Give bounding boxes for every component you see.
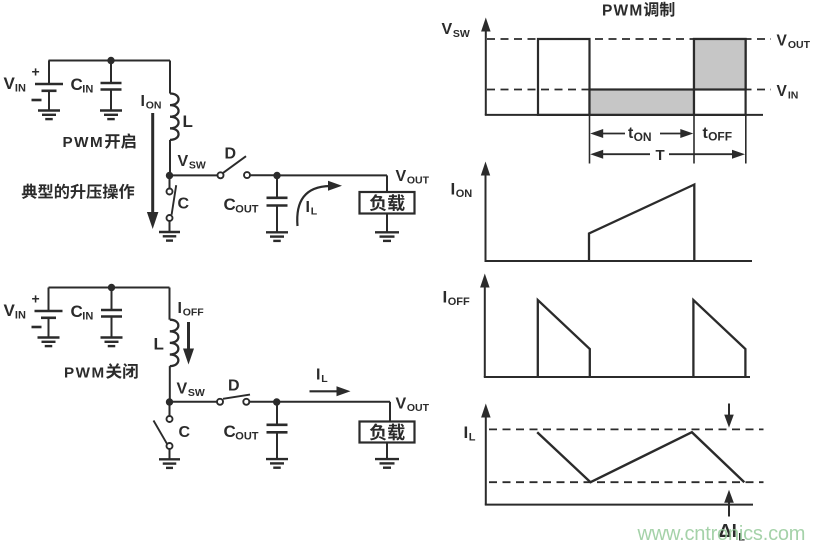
axis y VSW chart [485, 30, 487, 115]
wire VSW to switch D circuit 2 [170, 401, 218, 403]
ground load circuit 1 [375, 231, 399, 233]
load box circuit 1 [360, 192, 415, 214]
switch C circuit 1 [169, 177, 171, 189]
svg-text:www.cntronics.com: www.cntronics.com [637, 523, 806, 545]
svg-text:SW: SW [188, 387, 205, 399]
node Cout circuit 2 [273, 398, 280, 405]
label - minus sign [32, 99, 42, 102]
svg-text:PWM: PWM [63, 134, 105, 151]
switch D circuit 2 [217, 399, 223, 405]
svg-text:V: V [442, 21, 453, 38]
ground switch C circuit 2 [159, 458, 180, 460]
wire Vsw drop circuit 1 [169, 140, 171, 176]
node junction Cin top circuit 2 [108, 284, 115, 291]
axis x IL chart [485, 504, 753, 506]
ground COUT circuit 2 [266, 458, 288, 460]
node junction Cin top circuit 1 [107, 57, 114, 64]
svg-text:IN: IN [82, 311, 93, 323]
svg-text:PWM: PWM [602, 2, 643, 19]
svg-text:C: C [178, 196, 190, 213]
svg-text:OUT: OUT [407, 402, 430, 414]
capacitor CIN circuit 2 [111, 288, 113, 311]
waveform IOFF pulse 2 [693, 300, 745, 377]
wire D to Cout node circuit 2 [249, 401, 276, 403]
label load text circuit 1 [370, 194, 386, 211]
svg-text:L: L [311, 206, 318, 218]
svg-text:V: V [396, 168, 407, 185]
axis y IOFF chart [484, 286, 486, 377]
svg-text:I: I [451, 179, 456, 198]
ground CIN circuit 2 [101, 336, 123, 338]
inductor L2 [170, 320, 179, 366]
svg-text:ON: ON [146, 100, 162, 112]
arrow delta top [728, 404, 730, 417]
capacitor COUT circuit 2 [276, 402, 278, 425]
svg-text:L: L [469, 431, 476, 443]
svg-text:L: L [154, 335, 164, 354]
pulse 2 outline rect [694, 39, 746, 115]
svg-text:L: L [183, 112, 193, 131]
svg-text:ON: ON [634, 130, 652, 144]
dashed line VIN level [487, 89, 771, 91]
arrow ION current [151, 113, 154, 213]
delimiter line pulse1 end [589, 115, 591, 164]
waveform IL triangle [537, 432, 744, 482]
svg-text:OFF: OFF [183, 307, 205, 319]
axis x IOFF chart [484, 376, 750, 378]
node Cout circuit 1 [273, 172, 280, 179]
arrow ton span [590, 129, 603, 138]
svg-text:I: I [316, 367, 320, 384]
svg-text:OUT: OUT [407, 175, 430, 187]
label typical boost operation heading [22, 184, 37, 199]
arrow T span [590, 150, 603, 159]
load box circuit 2 [360, 422, 415, 443]
pulse 1 white rect [538, 39, 590, 115]
svg-text:C: C [71, 75, 83, 94]
ground switch C circuit 1 [159, 231, 180, 233]
wire inductor drop circuit 2 [169, 288, 171, 320]
axis y ION chart [485, 174, 487, 261]
svg-text:V: V [777, 83, 788, 100]
svg-text:D: D [228, 378, 240, 395]
wire inductor drop circuit 1 [169, 61, 171, 94]
dashed line IL bottom [489, 481, 764, 483]
wire VSW to switch D circuit 1 [170, 174, 218, 176]
dashed line IL top [489, 428, 764, 430]
wire D to Cout node circuit 1 [250, 174, 277, 176]
arrow IL curved circuit 1 [297, 186, 330, 226]
svg-text:SW: SW [453, 28, 470, 40]
svg-text:+: + [32, 64, 40, 80]
svg-text:OFF: OFF [448, 296, 470, 308]
axis y IL chart [485, 416, 487, 505]
svg-text:L: L [321, 373, 328, 385]
ground CIN circuit 1 [100, 109, 122, 111]
svg-text:C: C [71, 302, 83, 321]
ground load circuit 2 [375, 458, 399, 460]
svg-text:SW: SW [189, 160, 206, 172]
svg-text:I: I [141, 93, 145, 110]
label - minus sign circuit 2 [32, 326, 42, 329]
ground battery circuit 1 [38, 109, 60, 111]
battery VIN circuit 1 [48, 61, 50, 85]
svg-text:I: I [306, 199, 310, 216]
svg-text:I: I [443, 288, 448, 307]
wire top rail circuit 2 [49, 287, 170, 289]
svg-text:V: V [4, 301, 16, 320]
node VSW circuit 1 [166, 172, 173, 179]
svg-text:D: D [225, 145, 237, 162]
wire top rail circuit 1 [49, 60, 171, 62]
svg-text:T: T [656, 147, 665, 164]
battery VIN circuit 2 [48, 288, 50, 312]
svg-text:V: V [178, 153, 189, 170]
svg-text:V: V [177, 381, 188, 398]
wire load to ground circuit 1 [386, 214, 388, 233]
svg-text:OUT: OUT [235, 431, 258, 443]
arrow IL straight circuit 2 [310, 390, 342, 392]
svg-text:PWM: PWM [64, 364, 106, 381]
svg-text:I: I [464, 423, 469, 442]
svg-text:OUT: OUT [788, 39, 811, 51]
axis x ION chart [485, 260, 753, 262]
arrow IOFF current [187, 322, 190, 349]
svg-text:I: I [178, 300, 182, 317]
label load text circuit 2 [370, 424, 386, 441]
svg-text:ON: ON [456, 188, 473, 200]
ton gray rect [590, 90, 695, 115]
waveform ION trapezoid [589, 185, 694, 262]
inductor L1 [170, 94, 179, 140]
wire load to ground circuit 2 [386, 443, 388, 459]
svg-text:C: C [179, 424, 191, 441]
waveform IOFF pulse 1 [538, 300, 590, 377]
capacitor COUT circuit 1 [276, 176, 278, 198]
capacitor CIN circuit 1 [110, 61, 112, 84]
delimiter line ton end [693, 115, 695, 164]
toff gray rect [694, 39, 746, 90]
svg-text:V: V [396, 396, 407, 413]
svg-text:OFF: OFF [708, 129, 732, 143]
wire to Vout circuit 1 [277, 174, 387, 176]
axis x VSW chart [485, 114, 763, 116]
svg-text:OUT: OUT [235, 204, 258, 216]
node VSW circuit 2 [166, 398, 173, 405]
ground COUT circuit 1 [266, 231, 288, 233]
switch C circuit 2 [169, 403, 171, 416]
svg-text:IN: IN [15, 83, 26, 95]
svg-text:C: C [224, 195, 236, 214]
ground battery circuit 2 [38, 336, 60, 338]
dashed line VOUT level [487, 38, 771, 40]
svg-text:IN: IN [788, 90, 799, 102]
svg-text:IN: IN [82, 84, 93, 96]
svg-text:+: + [32, 291, 40, 307]
svg-text:V: V [777, 33, 788, 50]
arrow delta bottom [728, 502, 730, 517]
switch D circuit 1 [218, 172, 224, 178]
wire to Vout circuit 2 [277, 401, 390, 403]
svg-text:IN: IN [15, 310, 26, 322]
delimiter line toff end [745, 115, 747, 164]
wire Vsw drop circuit 2 [169, 366, 171, 402]
svg-text:C: C [224, 422, 236, 441]
svg-text:V: V [4, 74, 16, 93]
